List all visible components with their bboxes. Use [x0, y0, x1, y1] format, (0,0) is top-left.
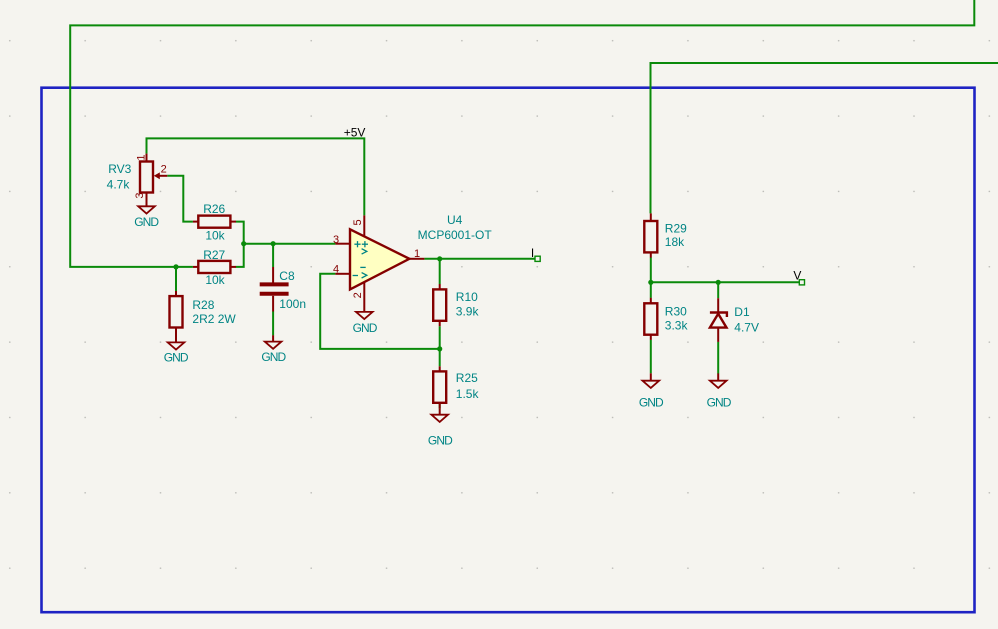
- zener diode D1: [710, 298, 727, 342]
- svg-text:D1: D1: [734, 305, 750, 319]
- svg-text:R10: R10: [456, 290, 478, 304]
- resistor R27: [193, 261, 236, 273]
- wire R25 bottom: [439, 403, 441, 409]
- svg-text:5: 5: [352, 219, 364, 225]
- ground under R28: [164, 342, 189, 364]
- resistor R26: [193, 216, 236, 228]
- svg-text:GND: GND: [707, 396, 732, 410]
- svg-text:4.7V: 4.7V: [734, 321, 759, 335]
- svg-text:2: 2: [352, 292, 364, 298]
- unconnected end square at label I: [535, 256, 540, 261]
- wire output to R10: [439, 259, 441, 284]
- svg-text:18k: 18k: [665, 235, 685, 249]
- svg-text:1.5k: 1.5k: [456, 387, 480, 401]
- svg-text:3: 3: [134, 193, 146, 199]
- resistor R28: [170, 291, 183, 342]
- wire node to op-amp pin3: [244, 243, 336, 245]
- wire R30 bottom: [650, 340, 652, 374]
- ground under R30: [639, 373, 664, 409]
- ground under R25: [428, 409, 453, 448]
- svg-text:2: 2: [161, 163, 167, 175]
- wire R10 bottom to feedback node: [439, 326, 441, 349]
- wire D1 bottom: [717, 342, 719, 374]
- junction at D1 top: [716, 280, 721, 285]
- svg-text:10k: 10k: [205, 229, 225, 243]
- capacitor C8: [260, 267, 289, 312]
- svg-text:V: V: [793, 269, 801, 283]
- wire junction row to label V: [651, 281, 800, 283]
- svg-text:1: 1: [414, 248, 420, 260]
- op-amp U4: [335, 215, 424, 312]
- svg-text:GND: GND: [428, 434, 453, 448]
- svg-text:R30: R30: [665, 305, 687, 319]
- sheet border frame (decorative): [42, 88, 975, 613]
- wire R29 bottom to junction to R30: [650, 258, 652, 298]
- resistor R25: [433, 366, 446, 408]
- svg-text:R29: R29: [665, 221, 687, 235]
- U4 pin name minus (pin 4): [353, 275, 358, 277]
- svg-text:RV3: RV3: [108, 162, 131, 176]
- ground under RV3: [134, 206, 159, 229]
- wire op-amp output to label I: [424, 258, 535, 260]
- junction at feedback node: [437, 346, 442, 351]
- wire R27 left stub: [176, 266, 193, 268]
- junction at C8 top: [271, 241, 276, 246]
- wire feedback to op-amp pin4: [320, 274, 440, 349]
- svg-text:10k: 10k: [205, 273, 225, 287]
- wire node to R25 top: [439, 349, 441, 366]
- svg-text:U4: U4: [447, 213, 463, 227]
- svg-text:GND: GND: [261, 350, 286, 364]
- svg-text:GND: GND: [639, 396, 664, 410]
- svg-text:2R2 2W: 2R2 2W: [192, 312, 236, 326]
- svg-text:GND: GND: [353, 321, 378, 335]
- svg-text:MCP6001-OT: MCP6001-OT: [418, 228, 493, 242]
- ground under C8: [261, 335, 286, 364]
- svg-text:R26: R26: [203, 202, 225, 216]
- svg-text:I: I: [531, 246, 534, 260]
- svg-text:R28: R28: [192, 298, 214, 312]
- svg-text:R25: R25: [456, 371, 478, 385]
- svg-text:4.7k: 4.7k: [107, 178, 131, 192]
- U4 pin name plus (pin 3): [354, 241, 360, 247]
- unconnected end square at label V: [799, 280, 804, 285]
- svg-text:R27: R27: [203, 248, 225, 262]
- svg-text:GND: GND: [164, 351, 189, 365]
- wire net to R27 left (long top wire): [70, 0, 974, 267]
- junction at R27/R28: [173, 264, 178, 269]
- wire R28 top: [175, 267, 177, 291]
- resistor R30: [644, 298, 657, 340]
- junction at R29/R30: [648, 280, 653, 285]
- svg-text:1: 1: [136, 154, 148, 160]
- potentiometer RV3: [140, 154, 167, 207]
- svg-text:3.9k: 3.9k: [456, 305, 480, 319]
- wire D1 top: [717, 282, 719, 298]
- wire RV3 wiper to R26: [167, 176, 193, 222]
- junction at op-amp output: [437, 256, 442, 261]
- wire R26 right to node and down to R27 right: [236, 222, 244, 267]
- wire to R29 from top right: [651, 63, 998, 213]
- svg-text:C8: C8: [279, 269, 295, 283]
- wire +5V rail: [147, 138, 365, 215]
- svg-text:100n: 100n: [279, 297, 306, 311]
- svg-text:4: 4: [333, 264, 339, 276]
- ground under D1: [707, 373, 732, 409]
- svg-text:GND: GND: [134, 215, 159, 229]
- svg-text:+5V: +5V: [344, 125, 366, 139]
- junction at R26/R27 node: [241, 241, 246, 246]
- svg-text:3.3k: 3.3k: [665, 318, 689, 332]
- U4 pin name V- (pin 2): [360, 267, 367, 278]
- svg-text:3: 3: [333, 234, 339, 246]
- resistor R29: [644, 213, 657, 257]
- ground under U4 pin 2: [353, 312, 378, 335]
- wire C8 top: [272, 244, 274, 267]
- wire C8 bottom: [272, 311, 274, 335]
- U4 pin name V+ (pin 5): [362, 241, 368, 254]
- resistor R10: [433, 284, 446, 326]
